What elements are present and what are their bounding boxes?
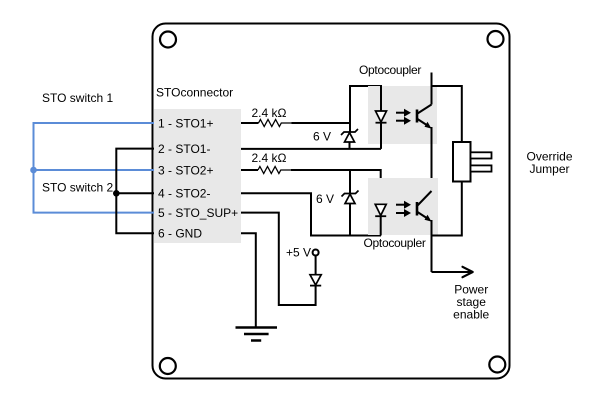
diode D5 lead top (315, 256, 317, 275)
wire R2 to LED3 top (291, 170, 381, 204)
wire power stage enable arrow (432, 271, 472, 273)
svg-text:Optocoupler: Optocoupler (364, 236, 426, 250)
svg-text:5 - STO_SUP+: 5 - STO_SUP+ (158, 206, 238, 220)
svg-text:6 - GND: 6 - GND (158, 227, 202, 241)
LED D2 lead bottom (380, 123, 382, 149)
transistor Q1 base bar (416, 110, 419, 123)
transistor Q2 emitter arrowhead (425, 215, 432, 222)
light arrow U1 a (396, 109, 411, 117)
svg-text:STO switch 1: STO switch 1 (42, 91, 113, 105)
optocoupler U2 body (368, 178, 438, 235)
LED D2 cathode bar (376, 122, 387, 124)
svg-text:6 V: 6 V (316, 192, 334, 206)
screw hole top-right (488, 31, 504, 47)
zener D3 cathode bar (342, 191, 359, 197)
node blue junction (30, 167, 37, 174)
wire node A up and over to LED1 (350, 86, 381, 123)
light arrow U2 a (396, 201, 411, 209)
diode D5 cathode bar (310, 285, 321, 287)
ground bar 2 (244, 333, 269, 336)
wire pin4 left (116, 192, 154, 194)
ground bar 3 (251, 339, 261, 342)
zener D3 lead bottom (349, 204, 351, 236)
zener D1 cathode bar (341, 129, 358, 135)
diode D5 triangle (310, 275, 321, 285)
LED D4 lead bottom (380, 216, 382, 235)
wire Q2 emitter down (431, 220, 433, 272)
LED D2 triangle (376, 111, 387, 122)
screw hole bottom-right (489, 357, 505, 373)
light arrow U2 b (396, 209, 411, 217)
svg-text:3 - STO2+: 3 - STO2+ (158, 164, 213, 178)
wire pin1 to R1 (241, 122, 259, 124)
zener D1 lead bottom (349, 142, 351, 149)
jumper JP1 pin upper (471, 152, 492, 158)
transistor Q1 collector (418, 105, 432, 114)
wire pin5 to diode (241, 213, 316, 305)
light arrow U1 b (396, 117, 411, 125)
jumper JP1 pin lower (471, 165, 492, 171)
zener D3 lead top (349, 170, 351, 194)
svg-text:6 V: 6 V (313, 130, 331, 144)
svg-text:4 - STO2-: 4 - STO2- (158, 187, 210, 201)
svg-text:enable: enable (453, 307, 489, 321)
wire STO switch 1 blue (34, 123, 155, 213)
jumper JP1 body (453, 142, 471, 182)
transistor Q1 emitter arrowhead (425, 122, 432, 129)
transistor Q2 base bar (416, 202, 419, 216)
zener D1 triangle (345, 133, 355, 142)
connector J1 body (154, 109, 241, 243)
LED D2 lead top (380, 86, 382, 111)
LED D4 triangle (375, 204, 386, 215)
wire stub above U1 (431, 73, 433, 87)
wire Q1 emitter to Q2 collector (431, 127, 433, 191)
wire Q1 collector up (431, 86, 433, 105)
wire pin6 to ground (241, 233, 256, 327)
wire pin2 return line ch1 (241, 148, 381, 150)
resistor R1 2.4k (259, 120, 292, 127)
arrowhead power stage enable (463, 267, 473, 277)
svg-text:Optocoupler: Optocoupler (359, 63, 421, 77)
board outline (153, 24, 510, 379)
transistor Q2 emitter (418, 212, 430, 220)
screw hole top-left (160, 32, 176, 48)
svg-text:Jumper: Jumper (529, 162, 569, 176)
wire emitter branch to jumper bottom (432, 182, 462, 236)
svg-text:1 - STO1+: 1 - STO1+ (158, 116, 213, 130)
transistor Q2 collector (418, 191, 432, 206)
wire pin3 to R2 (241, 169, 258, 171)
optocoupler U1 body (368, 86, 437, 144)
svg-text:+5 V: +5 V (286, 245, 311, 259)
svg-text:2.4 kΩ: 2.4 kΩ (252, 151, 287, 165)
LED D4 cathode bar (375, 215, 386, 217)
svg-text:2 - STO1-: 2 - STO1- (158, 142, 210, 156)
screw hole bottom-left (160, 358, 176, 374)
wire pin3 blue (34, 169, 155, 171)
terminal +5V circle (313, 250, 319, 256)
zener D1 lead top (349, 123, 351, 132)
wire top rail to jumper (432, 86, 462, 142)
ground bar 1 (236, 326, 278, 329)
svg-text:STO switch 2: STO switch 2 (42, 181, 113, 195)
resistor R2 2.4k (258, 167, 291, 174)
wire STO switch 2 black (116, 149, 154, 234)
svg-text:2.4 kΩ: 2.4 kΩ (252, 106, 287, 120)
zener D3 triangle (345, 194, 355, 203)
transistor Q1 emitter (418, 119, 430, 127)
wire pin4 return ch2 (241, 193, 381, 235)
node black junction (113, 190, 120, 197)
svg-text:STOconnector: STOconnector (156, 86, 233, 100)
wire R1 to node A (292, 122, 351, 124)
